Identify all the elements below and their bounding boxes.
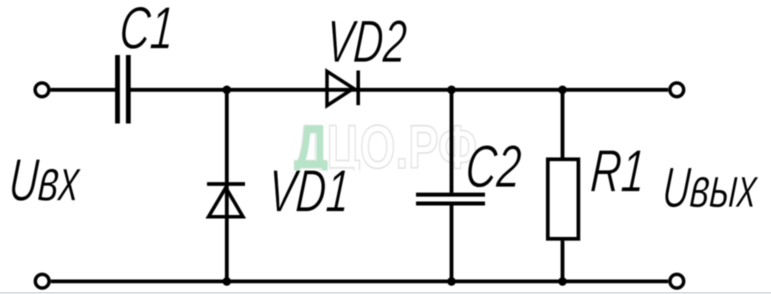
svg-text:C1: C1 (118, 0, 177, 61)
svg-text:C2: C2 (464, 133, 524, 200)
svg-text:VD1: VD1 (266, 158, 352, 225)
svg-text:Uвых: Uвых (661, 156, 761, 220)
svg-text:Uвх: Uвх (7, 147, 83, 214)
svg-text:VD2: VD2 (324, 8, 409, 75)
svg-text:R1: R1 (589, 138, 648, 205)
